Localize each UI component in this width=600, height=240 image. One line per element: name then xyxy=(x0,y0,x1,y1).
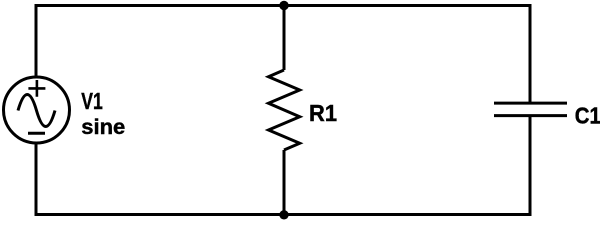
wire: left branch lower lead xyxy=(35,143,38,216)
voltage source V1 plus polarity mark xyxy=(28,80,45,97)
wire: top rail xyxy=(36,4,530,7)
voltage source V1 minus polarity mark xyxy=(28,132,45,135)
voltage source V1 circle xyxy=(4,77,70,143)
wire: right branch lower lead xyxy=(529,116,532,216)
wire: right branch upper lead xyxy=(529,4,532,103)
wire: middle branch upper lead xyxy=(283,6,286,71)
voltage source V1 sine waveform xyxy=(18,95,55,127)
junction node: top xyxy=(279,1,288,10)
capacitor C1 bottom plate xyxy=(494,114,567,117)
svg-text:sine: sine xyxy=(81,115,125,139)
wire: left branch upper lead xyxy=(35,4,38,77)
resistor R1 xyxy=(269,70,300,150)
wire: bottom rail xyxy=(36,213,530,216)
junction node: bottom xyxy=(279,210,288,219)
svg-text:C1: C1 xyxy=(575,102,600,128)
wire: middle branch lower lead xyxy=(283,150,286,215)
capacitor C1 top plate xyxy=(494,102,567,105)
svg-text:R1: R1 xyxy=(309,100,337,126)
svg-text:V1: V1 xyxy=(81,88,103,114)
